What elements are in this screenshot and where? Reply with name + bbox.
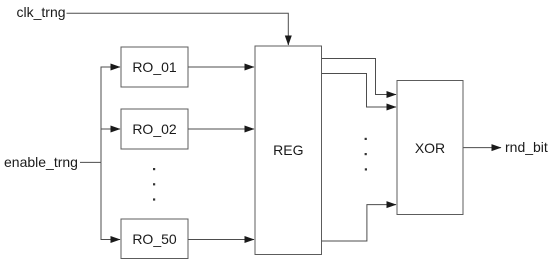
wire REG output 1 to XOR input 1 bbox=[322, 59, 396, 95]
svg-text:RO_02: RO_02 bbox=[132, 121, 177, 137]
wire REG output 2 to XOR input 2 bbox=[322, 74, 396, 108]
ellipsis dots between RO_02 and RO_50 bbox=[153, 168, 155, 201]
ring oscillator RO_01 bbox=[121, 47, 188, 87]
svg-text:XOR: XOR bbox=[415, 140, 445, 156]
wire RO_01 output to REG bbox=[189, 66, 255, 68]
svg-text:REG: REG bbox=[273, 142, 303, 158]
ellipsis dots between REG and XOR bbox=[365, 138, 367, 171]
ring oscillator RO_02 bbox=[121, 109, 188, 149]
svg-text:RO_01: RO_01 bbox=[132, 59, 177, 75]
wire REG output 3 to XOR input 3 bbox=[322, 205, 396, 241]
wire enable_trng to trunk bbox=[80, 161, 101, 163]
wire XOR output to rnd_bit bbox=[464, 147, 502, 149]
svg-text:clk_trng: clk_trng bbox=[17, 4, 66, 20]
wire trunk to RO_50 input bbox=[101, 162, 120, 239]
svg-text:RO_50: RO_50 bbox=[132, 231, 177, 247]
wire RO_50 output to REG bbox=[189, 239, 255, 241]
ring oscillator RO_50 bbox=[121, 219, 188, 259]
wire clk_trng to REG clock input bbox=[67, 13, 289, 45]
wire RO_02 output to REG bbox=[189, 128, 255, 130]
wire trunk to RO_01 input bbox=[101, 67, 120, 162]
register block REG bbox=[255, 46, 322, 255]
svg-text:rnd_bit: rnd_bit bbox=[505, 139, 548, 155]
svg-text:enable_trng: enable_trng bbox=[4, 154, 78, 170]
xor block XOR bbox=[397, 81, 463, 215]
wire trunk to RO_02 input bbox=[101, 128, 120, 130]
